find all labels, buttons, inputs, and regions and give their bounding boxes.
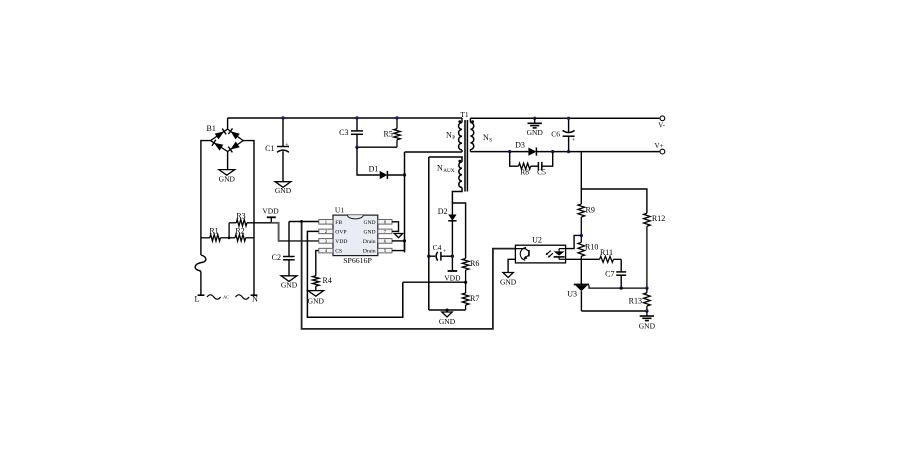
wire U3 anode to output gnd bbox=[581, 310, 647, 312]
wire R7 bottom to primary gnd line bbox=[429, 309, 466, 311]
diode D1 bbox=[369, 165, 405, 180]
svg-text:D1: D1 bbox=[369, 165, 379, 174]
junction R13 bottom bbox=[645, 309, 648, 312]
power VDD tap bbox=[262, 207, 279, 223]
svg-text:R11: R11 bbox=[600, 248, 613, 257]
diode D3 bbox=[515, 141, 536, 156]
svg-text:GND: GND bbox=[363, 220, 375, 226]
wire divider top to R12 bbox=[581, 189, 647, 213]
junction snubber right bbox=[551, 150, 554, 153]
svg-text:C6: C6 bbox=[551, 129, 560, 138]
wire U1 pin1 FB stub bbox=[289, 221, 319, 223]
svg-text:R1: R1 bbox=[209, 227, 218, 236]
wire U1 pin4 CS to R4 bbox=[316, 251, 319, 276]
wire B1 left to L line bbox=[201, 141, 211, 255]
svg-text:R12: R12 bbox=[652, 214, 665, 223]
wire R6/R7 junction to OVP loop bbox=[403, 281, 467, 284]
resistor R13 bbox=[629, 288, 651, 311]
junction C7 bottom bbox=[620, 286, 623, 289]
svg-text:R8: R8 bbox=[520, 168, 529, 177]
resistor R12 bbox=[644, 213, 666, 288]
svg-text:C2: C2 bbox=[272, 253, 281, 262]
svg-text:GND: GND bbox=[639, 322, 656, 331]
resistor R5 bbox=[383, 118, 400, 147]
svg-text:VDD: VDD bbox=[335, 239, 347, 245]
ground (C2) bbox=[281, 276, 298, 290]
svg-text:S: S bbox=[489, 138, 492, 144]
bridge rectifier B1 bbox=[207, 118, 244, 152]
junction C4 left bbox=[427, 255, 430, 258]
terminal V+ bbox=[655, 142, 665, 154]
svg-text:SP6616P: SP6616P bbox=[343, 256, 372, 265]
svg-text:L: L bbox=[195, 295, 200, 304]
wire node R1-R2 junction to R3 bbox=[228, 223, 231, 239]
svg-text:U2: U2 bbox=[532, 236, 542, 245]
svg-text:R7: R7 bbox=[470, 294, 479, 303]
diode D2 bbox=[438, 203, 457, 221]
resistor R7 bbox=[462, 282, 479, 310]
wire D3 cathode to V+ rail bbox=[536, 151, 659, 153]
ground (U1 GND pins 7,8) bbox=[392, 222, 403, 238]
junction gnd stem bbox=[446, 309, 449, 312]
svg-text:R4: R4 bbox=[323, 276, 332, 285]
junction D3 anode bbox=[508, 150, 511, 153]
resistor R1 bbox=[201, 227, 229, 242]
wire VDD to U1 pin 3 (VDD) bbox=[271, 223, 319, 241]
wire U1 pin5 Drain bbox=[392, 241, 405, 251]
AC source bbox=[207, 295, 249, 300]
svg-text:N: N bbox=[483, 133, 489, 142]
svg-text:N: N bbox=[437, 164, 443, 173]
power VDD rail (from D2) bbox=[444, 221, 461, 283]
svg-text:FB: FB bbox=[335, 220, 342, 226]
wire node B (LED cathode) bbox=[566, 258, 600, 260]
svg-text:C1: C1 bbox=[265, 144, 274, 153]
svg-text:C3: C3 bbox=[339, 128, 348, 137]
ground (C1) bbox=[275, 182, 292, 195]
svg-text:T1: T1 bbox=[460, 110, 469, 119]
svg-text:V+: V+ bbox=[655, 142, 664, 150]
svg-text:GND: GND bbox=[219, 175, 236, 184]
capacitor C7 bbox=[605, 259, 626, 288]
svg-text:D2: D2 bbox=[438, 207, 448, 216]
junction D1 cathode / drain net bbox=[403, 173, 406, 176]
wire secondary top rail bbox=[470, 117, 659, 119]
junction R9 bottom node A bbox=[580, 234, 583, 237]
ground (R4) bbox=[308, 291, 325, 306]
shunt regulator U3 bbox=[567, 259, 589, 311]
svg-text:AC: AC bbox=[223, 295, 229, 300]
resistor R6 bbox=[462, 259, 479, 283]
junction R12/R13 divider bbox=[645, 286, 648, 289]
transformer T1 core bbox=[460, 110, 469, 192]
svg-text:CS: CS bbox=[335, 249, 342, 255]
svg-text:GND: GND bbox=[275, 186, 292, 195]
svg-text:N: N bbox=[252, 295, 258, 304]
svg-text:C5: C5 bbox=[537, 168, 546, 177]
svg-text:Drain: Drain bbox=[363, 239, 376, 245]
svg-text:B1: B1 bbox=[207, 124, 216, 133]
resistor R9 bbox=[578, 204, 595, 235]
terminal L bbox=[195, 295, 205, 304]
svg-text:GND: GND bbox=[281, 281, 298, 290]
svg-text:AUX: AUX bbox=[443, 168, 454, 174]
svg-text:C7: C7 bbox=[605, 270, 614, 279]
junction C3 bottom bbox=[355, 146, 358, 149]
svg-text:VDD: VDD bbox=[444, 274, 461, 283]
optocoupler U2 bbox=[515, 236, 565, 263]
capacitor C4 bbox=[429, 243, 453, 261]
capacitor C2 bbox=[272, 222, 295, 276]
transformer auxiliary winding Naux bbox=[429, 157, 462, 203]
wire Naux node to R6 top bbox=[452, 203, 465, 259]
svg-text:GND: GND bbox=[308, 297, 325, 306]
resistor R4 bbox=[313, 276, 332, 291]
capacitor C1 bbox=[265, 118, 289, 182]
wire clamp node to D1 anode bbox=[357, 147, 380, 175]
svg-text:R2: R2 bbox=[235, 227, 244, 236]
svg-text:N: N bbox=[446, 131, 452, 140]
svg-text:R9: R9 bbox=[586, 206, 595, 215]
svg-text:GND: GND bbox=[500, 278, 517, 287]
resistor R11 bbox=[600, 248, 622, 262]
wire U2 LED anode to node A bbox=[566, 235, 582, 248]
svg-text:V-: V- bbox=[658, 121, 665, 129]
terminal V- bbox=[658, 116, 665, 129]
ground (VDD filter) bbox=[439, 310, 456, 326]
ground (B1) bbox=[219, 152, 236, 184]
svg-text:R13: R13 bbox=[629, 297, 642, 306]
wire U1 pin6 Drain bbox=[392, 239, 406, 242]
resistor R3 bbox=[229, 212, 271, 227]
junction C6 bottom bbox=[567, 150, 570, 153]
svg-text:U1: U1 bbox=[335, 206, 344, 215]
junction R5 top bbox=[395, 116, 398, 119]
capacitor C6 bbox=[551, 118, 575, 151]
capacitor C3 bbox=[339, 118, 363, 147]
resistor R2 bbox=[229, 227, 254, 242]
svg-text:+: + bbox=[285, 142, 289, 148]
transformer primary winding Np bbox=[446, 118, 462, 152]
svg-text:OVP: OVP bbox=[335, 230, 346, 236]
svg-text:R5: R5 bbox=[383, 129, 392, 138]
junction C3 top bbox=[355, 116, 358, 119]
ground (secondary, R13) bbox=[639, 311, 656, 331]
wire FB net to U2 collector (outer loop) bbox=[300, 220, 515, 329]
junction C4 right bbox=[451, 255, 454, 258]
wire U3 ref to divider junction bbox=[589, 285, 647, 288]
wire drain net vertical bbox=[404, 152, 406, 252]
resistor R10 bbox=[578, 235, 598, 259]
svg-text:GND: GND bbox=[439, 317, 456, 326]
svg-text:C4: C4 bbox=[433, 243, 442, 252]
wire B1 right to N line bbox=[243, 141, 254, 296]
svg-text:D3: D3 bbox=[515, 141, 525, 150]
wire Ns bottom to D3 bbox=[470, 151, 528, 153]
transformer secondary winding Ns bbox=[470, 118, 492, 151]
svg-text:GND: GND bbox=[527, 128, 544, 137]
wire V+ rail down to R9 bbox=[580, 152, 582, 204]
fuse F1 on L line bbox=[195, 255, 206, 273]
svg-text:R10: R10 bbox=[585, 243, 598, 252]
op-amp/controller IC U1 SP6616P bbox=[319, 206, 392, 266]
svg-text:R3: R3 bbox=[236, 212, 245, 221]
svg-text:R6: R6 bbox=[470, 259, 479, 268]
snubber R8 and C5 bbox=[510, 152, 553, 177]
wire C3 bottom to R5 bottom bbox=[357, 146, 397, 148]
svg-text:U3: U3 bbox=[567, 290, 577, 299]
terminal N bbox=[251, 295, 259, 304]
svg-text:GND: GND bbox=[363, 230, 375, 236]
wire primary top rail bbox=[228, 117, 462, 119]
wire L line lower bbox=[200, 273, 202, 296]
ground (output common) bbox=[527, 117, 544, 137]
wire Naux-top / primary gnd vertical bbox=[428, 157, 430, 310]
svg-text:VDD: VDD bbox=[262, 207, 279, 216]
wire Np bottom to drain net bbox=[405, 151, 463, 153]
junction C6 top bbox=[567, 117, 570, 120]
wire U1 pin2 OVP to R6/R7 junction (inner loop) bbox=[307, 231, 402, 317]
junction C1 top bbox=[281, 116, 284, 119]
svg-text:Drain: Drain bbox=[363, 249, 376, 255]
ground (U2 emitter) bbox=[500, 259, 517, 286]
svg-text:P: P bbox=[452, 135, 455, 141]
